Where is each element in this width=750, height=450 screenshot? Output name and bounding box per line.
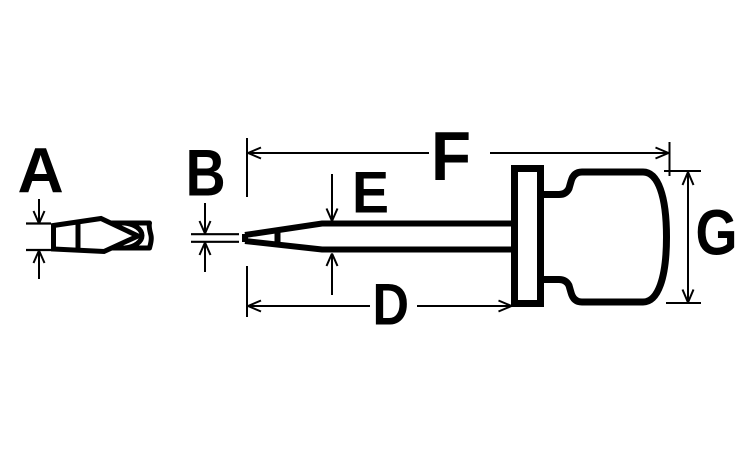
svg-text:D: D bbox=[373, 273, 410, 338]
svg-text:G: G bbox=[696, 197, 738, 269]
svg-text:F: F bbox=[431, 117, 471, 195]
svg-text:B: B bbox=[186, 136, 226, 210]
svg-text:A: A bbox=[18, 135, 64, 207]
svg-text:E: E bbox=[352, 161, 389, 226]
